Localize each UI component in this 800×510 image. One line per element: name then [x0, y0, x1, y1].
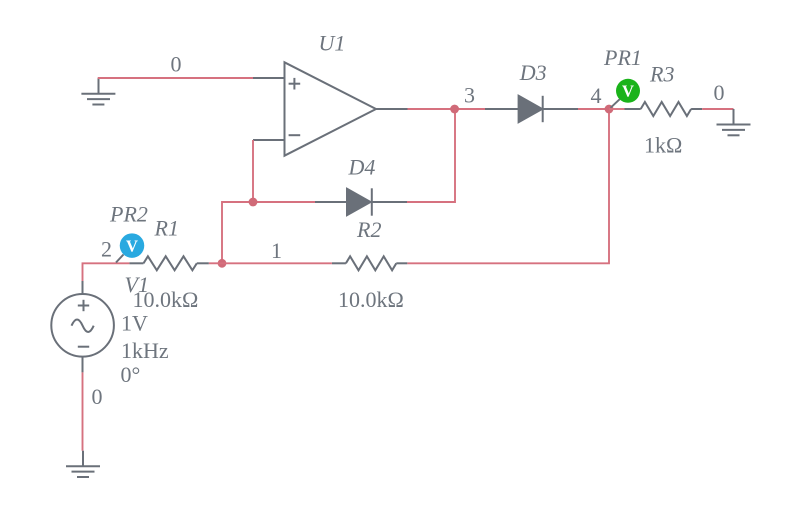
diode D4 — [315, 188, 407, 215]
svg-text:2: 2 — [101, 237, 112, 262]
svg-text:0: 0 — [714, 80, 725, 105]
wire D3 cathode to node 4 — [578, 108, 609, 110]
svg-text:U1: U1 — [319, 30, 346, 55]
svg-text:PR2: PR2 — [109, 201, 148, 226]
ground top-left (net 0) — [81, 78, 115, 105]
svg-text:V1: V1 — [125, 272, 149, 297]
source V1 — [51, 281, 114, 372]
svg-text:R1: R1 — [154, 216, 179, 241]
wire node 4 down to net 1 — [407, 109, 609, 263]
svg-text:3: 3 — [464, 83, 475, 108]
svg-text:1V: 1V — [121, 310, 148, 335]
svg-text:V: V — [622, 82, 634, 101]
resistor R2 — [332, 256, 407, 270]
svg-text:1kHz: 1kHz — [121, 338, 169, 363]
resistor R1 — [129, 256, 208, 270]
svg-text:0°: 0° — [121, 362, 141, 387]
wire R1 to node — [209, 262, 222, 264]
svg-text:R3: R3 — [649, 61, 674, 86]
svg-text:0: 0 — [171, 52, 182, 77]
svg-text:D4: D4 — [348, 155, 376, 180]
diode D3 — [485, 96, 578, 122]
svg-text:1: 1 — [271, 238, 282, 263]
node 3 — [450, 105, 459, 114]
wire node 4 to R3 — [609, 108, 625, 110]
wire V1 plus to R1 — [83, 263, 130, 281]
node 4 — [605, 105, 614, 114]
svg-text:R2: R2 — [356, 217, 381, 242]
wire net 0 to U1 + input — [98, 77, 253, 79]
wire junction to D4 anode — [253, 201, 315, 203]
ground bottom — [66, 451, 100, 477]
probe PR1 — [611, 79, 641, 108]
wire U1 output net 3 — [408, 108, 486, 110]
op-amp U1 — [253, 62, 408, 155]
svg-text:V: V — [126, 236, 138, 255]
svg-text:PR1: PR1 — [603, 45, 642, 70]
wire net 1 node to R2 — [222, 262, 332, 264]
resistor R3 — [625, 102, 703, 116]
svg-text:4: 4 — [591, 83, 602, 108]
svg-text:10.0kΩ: 10.0kΩ — [338, 287, 404, 312]
svg-text:D3: D3 — [519, 60, 547, 85]
wire junction to net 1 — [222, 202, 253, 263]
wire V1 minus to ground — [82, 372, 84, 450]
wire U1 inverting input feedback — [252, 140, 254, 202]
probe PR2 — [116, 233, 144, 262]
node junction (feedback) — [249, 198, 258, 207]
svg-text:1kΩ: 1kΩ — [644, 132, 682, 157]
node on net 1 — [218, 259, 227, 268]
wire D4 cathode to node 3 — [407, 109, 455, 202]
wire R3 to ground — [702, 108, 733, 110]
ground right — [717, 109, 751, 135]
svg-text:0: 0 — [92, 384, 103, 409]
